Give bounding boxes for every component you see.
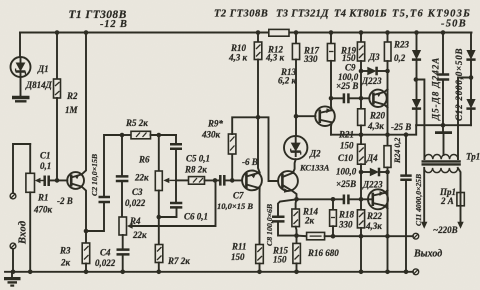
- resistor R24: [384, 146, 391, 274]
- transformer core: [422, 161, 461, 164]
- diode D3: [361, 67, 390, 76]
- resistor R7: [155, 245, 163, 275]
- ground under D1: [12, 98, 30, 102]
- wire T1 emitter to rail: [82, 33, 86, 175]
- resistor R16: [297, 232, 413, 239]
- output terminal lower: [413, 269, 419, 275]
- transistor T5: [361, 89, 388, 107]
- wire bottom ground rail: [5, 271, 413, 273]
- diode D5: [412, 30, 421, 99]
- diode D2 zener KS133A: [284, 136, 307, 159]
- resistor R9: [228, 117, 258, 180]
- rheostat R4: [119, 217, 135, 249]
- capacitor C11 electrolytic: [400, 135, 411, 274]
- output terminal upper: [413, 233, 419, 239]
- wire node199 line to T6 base: [297, 198, 369, 200]
- resistor R12 in rail: [269, 29, 289, 36]
- diode D1 zener: [11, 33, 31, 97]
- wire top supply rail left of R12: [20, 32, 269, 34]
- resistor R2: [54, 30, 61, 180]
- resistor R10: [254, 30, 261, 117]
- input terminal lower: [10, 243, 16, 274]
- capacitor C2 electrolytic: [99, 135, 123, 202]
- resistor R8: [176, 177, 219, 185]
- capacitor C12 electrolytic: [437, 30, 449, 127]
- wire T2 emitter down: [259, 188, 261, 244]
- ground bottom left: [4, 272, 21, 286]
- node arrow at C5 C6 R8 junction: [163, 178, 176, 183]
- transformer center tap: [435, 125, 452, 155]
- wire secondary left lead: [414, 77, 419, 82]
- resistor R13: [292, 30, 299, 136]
- wire T2 collector up to R10: [258, 117, 260, 172]
- resistor R18: [330, 197, 337, 236]
- wire -25V line: [331, 134, 406, 136]
- transformer Tr1 primary winding: [424, 168, 458, 173]
- resistor R21: [358, 144, 366, 210]
- wire primary left lead with arrow: [421, 168, 427, 229]
- resistor R11: [256, 245, 264, 275]
- diode D7: [466, 33, 475, 100]
- resistor R15: [293, 236, 301, 275]
- input terminal upper: [10, 144, 30, 199]
- potentiometer R1: [26, 144, 44, 274]
- wire T1 collector down: [82, 187, 86, 231]
- capacitor C4: [117, 250, 130, 275]
- capacitor C1: [45, 176, 68, 187]
- transformer Tr1 secondary winding: [424, 155, 458, 160]
- transistor T4: [315, 106, 335, 126]
- diode D8: [466, 99, 475, 125]
- transistor T3: [278, 171, 298, 193]
- fuse Pr1: [457, 168, 464, 229]
- capacitor C3: [116, 135, 129, 217]
- resistor R19: [357, 30, 364, 109]
- wire node117 to T3 base: [258, 117, 277, 181]
- resistor R14: [292, 199, 300, 238]
- transistor T2: [242, 171, 262, 191]
- resistor R5: [120, 131, 176, 139]
- wire node to T4 base: [296, 115, 315, 117]
- resistor R6: [155, 135, 162, 245]
- transistor T6: [368, 189, 388, 209]
- capacitor C6: [157, 180, 183, 219]
- wire top supply rail right of R12: [289, 32, 472, 34]
- wire D2 to T3 collector: [293, 159, 296, 173]
- capacitor C10: [344, 195, 349, 205]
- wire feedback line from R4 wiper to T2 base node: [131, 180, 216, 226]
- capacitor C9: [331, 93, 361, 103]
- wire node199 branch to C8: [278, 199, 297, 215]
- wire bridge bottom to -25V node: [416, 124, 471, 126]
- wire collector node to C2: [86, 203, 104, 231]
- diode D4: [361, 168, 390, 177]
- diode D6: [412, 99, 421, 125]
- resistor R3: [82, 231, 90, 274]
- capacitor C5: [170, 135, 182, 180]
- wire T3 emitter to node199: [291, 190, 296, 199]
- wire secondary right lead: [469, 75, 474, 80]
- capacitor C8 electrolytic: [272, 217, 297, 236]
- resistor R17: [327, 30, 334, 110]
- transistor T1: [67, 172, 84, 189]
- resistor R20: [358, 109, 365, 144]
- wire T4 emitter to -25V line: [330, 122, 333, 134]
- capacitor C7: [220, 175, 241, 186]
- resistor R23: [384, 30, 391, 146]
- resistor R22: [357, 210, 364, 274]
